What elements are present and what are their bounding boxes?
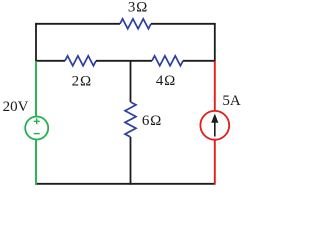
wire: left branch lower green bbox=[35, 139, 37, 184]
current source arrow stem bbox=[214, 122, 216, 137]
resistor 6ohm zigzag bbox=[125, 102, 136, 137]
current source 5A circle bbox=[200, 111, 229, 140]
wire: left branch upper green bbox=[35, 61, 37, 117]
voltage source 20V circle bbox=[25, 117, 48, 140]
wire: right branch upper red bbox=[214, 61, 216, 111]
svg-text:20V: 20V bbox=[3, 99, 29, 115]
wire: middle horizontal, left lead bbox=[36, 60, 65, 62]
svg-text:3Ω: 3Ω bbox=[128, 0, 148, 16]
voltage source minus sign bbox=[34, 133, 40, 135]
wire: top horizontal right segment bbox=[151, 23, 216, 25]
resistor 2ohm zigzag bbox=[65, 56, 96, 66]
wire: top loop right vertical (black) bbox=[214, 24, 216, 62]
svg-text:5A: 5A bbox=[222, 93, 241, 109]
wire: top horizontal left segment bbox=[35, 23, 120, 25]
wire: middle branch bottom lead bbox=[130, 137, 132, 185]
wire: right branch lower red bbox=[214, 140, 216, 185]
wire: middle horizontal, right lead bbox=[183, 60, 215, 62]
wire: bottom horizontal bbox=[35, 183, 215, 185]
wire: middle branch top lead bbox=[130, 61, 132, 102]
svg-text:6Ω: 6Ω bbox=[142, 113, 162, 129]
resistor 3ohm zigzag bbox=[120, 19, 151, 29]
resistor 4ohm zigzag bbox=[152, 56, 183, 66]
wire: middle horizontal, center lead bbox=[96, 60, 152, 62]
voltage source plus sign bbox=[34, 118, 40, 124]
current source arrow head bbox=[211, 114, 218, 123]
svg-text:4Ω: 4Ω bbox=[156, 73, 176, 89]
wire: top loop left vertical (black) bbox=[35, 24, 37, 62]
svg-text:2Ω: 2Ω bbox=[72, 74, 92, 90]
